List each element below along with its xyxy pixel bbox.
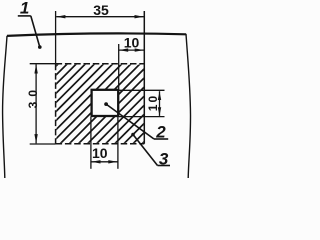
svg-text:35: 35 — [93, 2, 109, 18]
svg-text:2: 2 — [155, 123, 166, 142]
svg-text:30: 30 — [26, 85, 40, 108]
svg-text:10: 10 — [124, 34, 140, 50]
svg-text:1: 1 — [20, 0, 29, 18]
svg-text:10: 10 — [92, 145, 108, 161]
svg-text:3: 3 — [159, 149, 169, 168]
svg-text:10: 10 — [146, 94, 160, 111]
